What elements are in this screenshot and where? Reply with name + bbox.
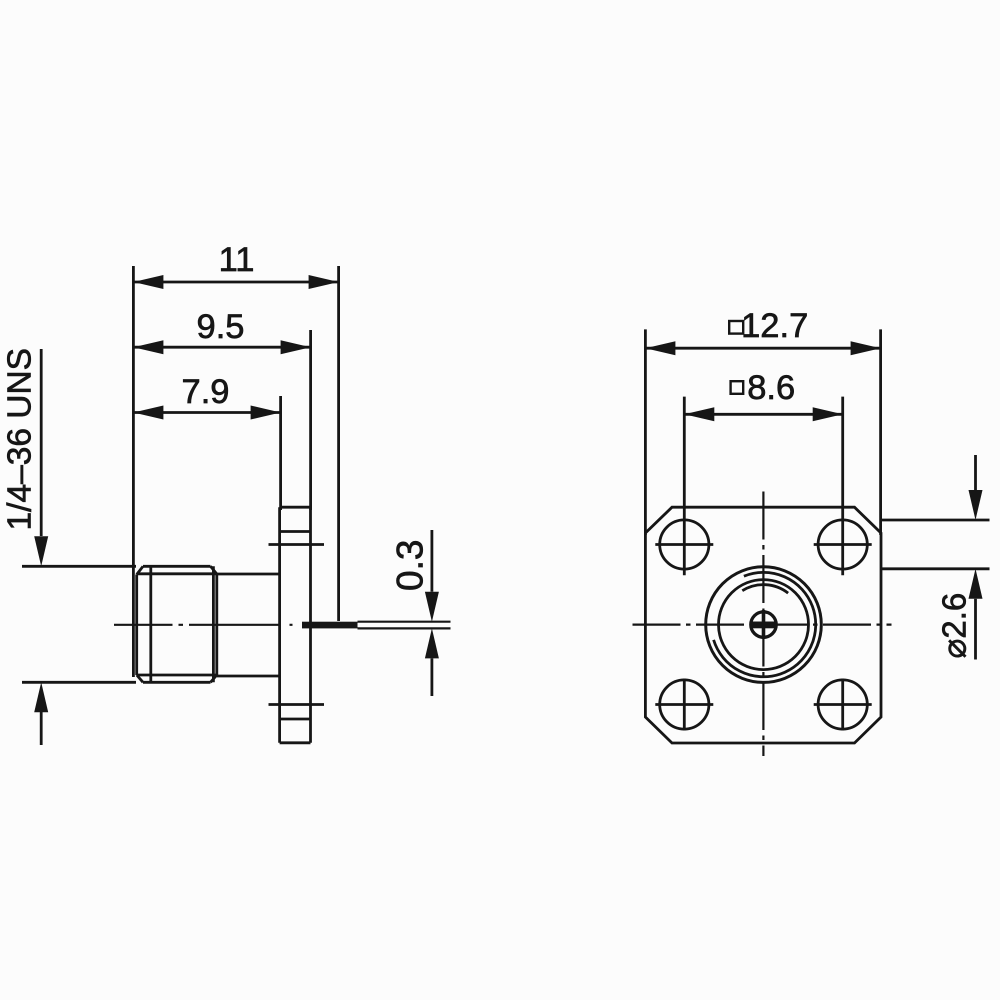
flange front outline [645,507,881,743]
svg-text:11: 11 [219,241,255,279]
dimension 12.7 [645,307,880,355]
svg-text:⌀2.6: ⌀2.6 [936,593,973,659]
nut face line right [212,566,215,682]
solder tab top line [358,621,451,623]
thread extension line top [22,565,136,568]
connector nose circle [719,580,809,670]
dimension 0.3 [390,530,439,696]
solder tab bottom line [358,627,451,629]
dimension 9.5 [133,308,310,354]
connector inner arc [742,585,788,593]
hole bottom-left crosshair [655,703,713,706]
nut chamfer line bottom [137,674,217,677]
centerline side view [114,624,302,626]
svg-text:0.3: 0.3 [390,540,431,591]
front centerline vertical [762,492,764,757]
solder tab filled part [302,622,358,629]
flange side right face [309,507,312,743]
nut chamfer line top [137,572,217,575]
connector outer circle [706,567,822,683]
flange side bottom edge [280,741,311,744]
nut face line left [149,566,152,682]
dimension 7.9 [133,373,280,420]
hole bottom-right crosshair [814,703,872,706]
hole top-right crosshair [814,543,872,546]
hole bottom-left [660,680,709,729]
barrel bottom edge [217,675,280,678]
center pin circle [751,612,776,637]
dimension 11 [133,241,338,289]
extension line left face (11/9.5/7.9 common) [132,266,135,677]
svg-text:12.7: 12.7 [741,307,808,345]
center pin bar [751,622,777,629]
dimension 8.6 [684,369,842,421]
flange hole axis top [269,543,325,546]
extension line 2.6 bottom [881,567,990,570]
extension line 8.6 left / top-left hole axis [683,397,686,576]
svg-text:1/4–36 UNS: 1/4–36 UNS [2,348,39,531]
flange side top edge [280,506,311,509]
svg-text:7.9: 7.9 [182,373,230,411]
dimension 2.6 [936,455,983,660]
extension line 12.7 left [644,329,647,535]
center pin vertical [762,610,766,639]
hole bottom-right [818,680,867,729]
flange chamfer line top [280,530,311,533]
hole top-left [660,520,709,569]
thread dimension line upper [34,349,48,566]
thread dimension line lower [34,682,48,745]
svg-text:8.6: 8.6 [747,369,795,407]
connector thread arc [714,572,816,676]
hole top-right [818,520,867,569]
flange side left face [278,507,281,743]
extension line 9.5 right [309,330,312,510]
extension line 11 right [337,266,340,621]
front centerline horizontal [633,623,892,625]
extension line 2.6 top [881,519,990,522]
hole top-left crosshair [655,543,713,546]
flange chamfer line bottom [280,718,311,721]
extension line 8.6 right / top-right hole axis [841,397,844,576]
barrel top edge [217,573,280,576]
flange hole axis bottom [269,703,325,706]
extension line 12.7 right [879,329,882,535]
thread extension line bottom [22,681,136,684]
extension line 7.9 right [279,396,282,510]
svg-text:9.5: 9.5 [197,308,245,346]
nut outline [137,566,217,682]
